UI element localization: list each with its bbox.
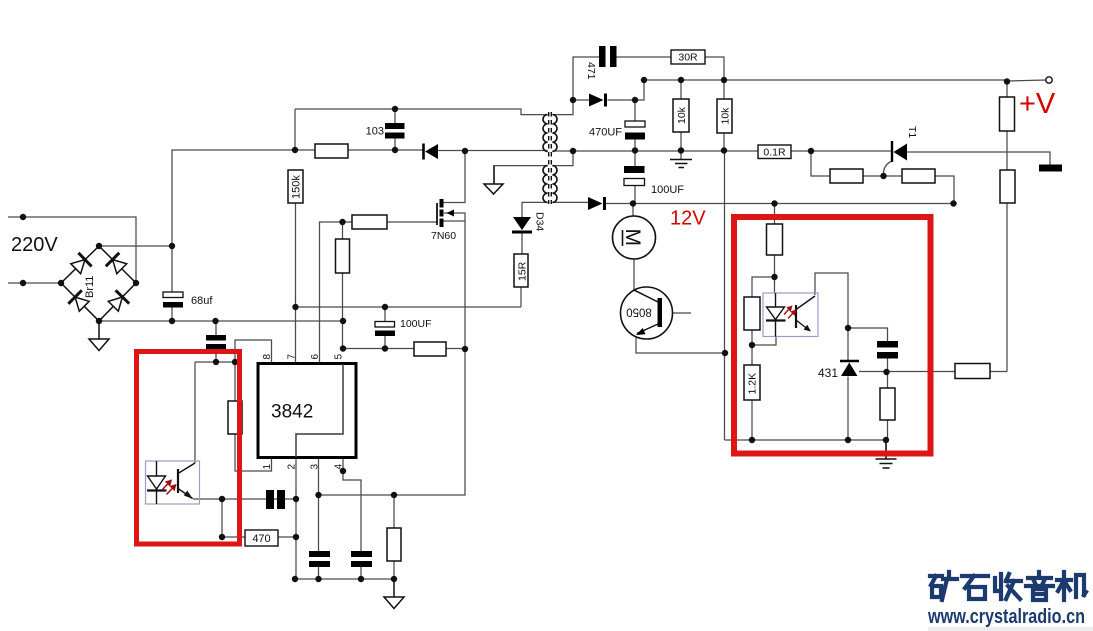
mosfet 7N60 xyxy=(437,199,454,227)
wire top out rail y80 xyxy=(644,79,1007,81)
svg-text:6: 6 xyxy=(310,354,321,360)
wire 431 node branch to cap xyxy=(848,328,888,341)
wire secondary2 winding top to rail xyxy=(552,151,573,166)
resistor bottom vertical xyxy=(387,528,401,561)
wire T1 base curve xyxy=(883,161,892,175)
ground below bridge xyxy=(89,321,109,351)
wire opto1 emitter row to pin2 xyxy=(193,498,296,500)
wire aux winding bottom to rail xyxy=(552,150,573,152)
wire T1 base network xyxy=(811,151,954,203)
resistor snubber top xyxy=(315,144,348,158)
capacitor 103 xyxy=(385,123,405,139)
capacitor 100UF small xyxy=(375,322,395,337)
svg-text:15R: 15R xyxy=(517,261,529,281)
labels red xyxy=(670,88,1056,230)
labels black xyxy=(11,52,918,546)
shunt regulator 431 xyxy=(840,361,859,376)
red highlight box right xyxy=(734,217,931,454)
wire primary lower row y150 xyxy=(295,149,548,152)
diode snubber xyxy=(424,144,439,160)
wire 100UF big leads xyxy=(634,151,636,203)
svg-text:+V: +V xyxy=(1019,88,1056,120)
resistor 10k first xyxy=(673,99,689,132)
svg-text:0.1R: 0.1R xyxy=(763,147,786,159)
resistor 1.2K xyxy=(744,365,760,400)
svg-text:12V: 12V xyxy=(670,208,706,230)
transistor 8050 xyxy=(621,287,673,339)
wire vcc aux line y307 xyxy=(296,306,522,308)
capacitor comp xyxy=(266,490,285,509)
wire AC top terminal to bridge right corner xyxy=(8,217,136,283)
optocoupler left box xyxy=(146,461,200,504)
resistor gate pulldown xyxy=(336,239,350,273)
wire 10k first leads xyxy=(680,80,682,159)
svg-text:T1: T1 xyxy=(906,126,918,138)
resistor current sense row xyxy=(414,342,446,356)
char kuang xyxy=(930,572,957,600)
transformer T core xyxy=(549,112,552,204)
wire bottom ground rail xyxy=(295,578,394,580)
ground near transformer xyxy=(484,166,503,194)
resistor T1 base a xyxy=(830,169,863,183)
capacitor 471 xyxy=(599,46,617,67)
svg-text:7N60: 7N60 xyxy=(431,230,456,242)
wire pin2 down xyxy=(295,458,297,579)
capacitor right box xyxy=(877,341,898,359)
motor M xyxy=(613,216,656,259)
svg-text:3842: 3842 xyxy=(271,402,313,423)
wire opto1 collector riser xyxy=(194,362,196,463)
svg-text:5: 5 xyxy=(334,354,345,360)
svg-text:30R: 30R xyxy=(678,52,698,64)
char ji xyxy=(1057,572,1086,600)
wire 68uf leads xyxy=(171,246,173,321)
resistor parallel led xyxy=(744,297,760,330)
ground bar terminal top right xyxy=(1039,165,1062,172)
wire 470UF leads xyxy=(634,100,636,151)
capacitor 68uf xyxy=(163,292,183,308)
ground right box earth xyxy=(876,440,897,468)
ground below 10k xyxy=(670,160,692,168)
wire long vertical x724 xyxy=(724,150,726,440)
wire feedback row y372 xyxy=(859,371,1007,373)
capacitor 470UF xyxy=(625,121,645,140)
svg-text:1: 1 xyxy=(262,464,273,470)
wire 68uf node up and right to 150k node xyxy=(172,150,295,246)
wire 440 ground rail of right box xyxy=(725,439,887,441)
resistor below cap2 xyxy=(880,388,895,420)
svg-text:D34: D34 xyxy=(534,212,546,231)
svg-text:100UF: 100UF xyxy=(651,184,684,196)
wire motor leads xyxy=(633,204,634,291)
svg-text:471: 471 xyxy=(585,62,597,80)
optocoupler right box xyxy=(763,293,818,337)
wire pin3 down xyxy=(318,458,320,579)
svg-text:103: 103 xyxy=(366,126,384,138)
red highlight box left xyxy=(137,352,240,545)
svg-text:4: 4 xyxy=(334,464,345,470)
wire HV minus rail xyxy=(99,320,343,322)
svg-text:8050: 8050 xyxy=(626,306,652,318)
svg-text:10k: 10k xyxy=(720,107,732,125)
char shou xyxy=(995,574,1021,599)
svg-text:www.crystalradio.cn: www.crystalradio.cn xyxy=(927,606,1085,628)
capacitor 100UF big xyxy=(624,166,645,186)
svg-text:10k: 10k xyxy=(676,106,688,124)
watermark band xyxy=(928,627,1093,631)
svg-text:Br11: Br11 xyxy=(84,276,96,298)
IC internal route xyxy=(296,364,343,457)
wire gate divider resistor leads xyxy=(342,222,344,348)
transformer primary winding xyxy=(543,115,548,152)
wire comp node row xyxy=(195,361,235,363)
diode secondary1 xyxy=(589,94,606,107)
wire 431 to ground rail xyxy=(847,377,849,441)
wire bottom resistor leads xyxy=(393,495,395,579)
wire primary ground row y348 xyxy=(343,348,465,350)
wire cap 103 leads xyxy=(394,109,396,150)
wire hv cap to comp node xyxy=(215,321,217,362)
wire parallel resistor to cathode node xyxy=(752,330,776,365)
svg-text:7: 7 xyxy=(287,354,298,360)
wire pin4 down jog xyxy=(343,458,361,579)
resistor +V upper xyxy=(1000,97,1015,131)
resistor label box 470 xyxy=(245,530,278,546)
open terminal +V xyxy=(1046,77,1052,83)
resistor comp vertical xyxy=(228,401,242,434)
transistor T1 xyxy=(892,141,907,162)
resistor feedback row xyxy=(955,364,990,379)
wire +V divider vertical xyxy=(1006,82,1008,372)
capacitor pin4 bottom xyxy=(351,551,372,567)
capacitor vcc filter xyxy=(206,335,226,350)
svg-text:100UF: 100UF xyxy=(400,318,432,330)
transformer secondary2 winding xyxy=(552,166,557,203)
wire aux winding top to diode node xyxy=(552,100,573,115)
bridge rectifier Br11 xyxy=(61,246,136,321)
wire led node to parallel resistor xyxy=(752,277,775,297)
wire D34 to 15R to vcc row xyxy=(521,234,522,308)
wire 1.2K bottom lead xyxy=(751,400,753,440)
ground bottom center xyxy=(384,579,404,609)
svg-text:470UF: 470UF xyxy=(589,127,622,139)
wire 10k second leads xyxy=(723,80,725,150)
wire snubber top rail xyxy=(295,109,548,150)
wire cap2 bottom and resistor leads xyxy=(887,359,889,441)
svg-text:8: 8 xyxy=(262,354,273,360)
wire T1 emitter to ground bar xyxy=(907,152,1050,165)
svg-text:3: 3 xyxy=(310,464,321,470)
wire source sense down to bottom row xyxy=(319,349,466,495)
wire right box top resistor leads xyxy=(774,204,776,294)
diode D34 xyxy=(512,217,532,234)
wire diode1 row xyxy=(573,80,644,100)
wire 470 row xyxy=(222,499,296,537)
wire secondary2 bottom to diode2 xyxy=(552,201,588,203)
wire 8050 base stub xyxy=(662,312,691,314)
char shi xyxy=(962,576,988,599)
wire opto2 collector path xyxy=(815,273,848,361)
capacitor pin3 bottom xyxy=(309,551,330,567)
watermark xyxy=(927,572,1086,628)
wire aux winding to D34 xyxy=(522,202,548,217)
resistor T1 base b xyxy=(902,169,935,183)
svg-text:431: 431 xyxy=(818,366,838,380)
resistor 15R xyxy=(514,254,528,287)
transformer secondary1 winding xyxy=(552,115,557,152)
wire AC bottom terminal to bridge left corner xyxy=(8,282,61,284)
resistor gate series xyxy=(352,215,387,229)
IC 3842 box xyxy=(258,364,356,458)
svg-text:2: 2 xyxy=(287,464,298,470)
svg-text:M: M xyxy=(621,229,644,247)
wire mosfet source down xyxy=(443,221,465,349)
wire 100UF small leads xyxy=(384,307,386,348)
wire to +V terminal xyxy=(1007,80,1046,81)
wire secondary common rail y151 xyxy=(573,150,892,152)
wire pin6 up and gate row xyxy=(320,222,438,363)
wire 150k to pin7 xyxy=(295,203,297,363)
svg-text:1.2K: 1.2K xyxy=(747,373,759,395)
svg-text:68uf: 68uf xyxy=(191,295,213,307)
wire bridge plus to 68uf node xyxy=(99,245,172,247)
transformer aux winding left xyxy=(543,166,548,203)
wire 12V rail y203 xyxy=(606,203,954,205)
wire primary aux winding to ground xyxy=(494,166,548,184)
resistor label box 30R xyxy=(671,50,705,64)
wire pin1 to comp resistor and pin8 path xyxy=(235,340,272,471)
resistor label box 0.1R xyxy=(758,145,791,159)
svg-text:470: 470 xyxy=(252,533,270,545)
resistor right box top xyxy=(767,224,783,255)
resistor 10k second xyxy=(717,99,732,133)
svg-text:220V: 220V xyxy=(11,234,58,256)
wire 471 branch xyxy=(573,57,724,100)
resistor 150k xyxy=(288,170,303,203)
diode secondary2 xyxy=(588,197,605,210)
resistor +V lower xyxy=(1000,170,1015,203)
svg-text:150k: 150k xyxy=(291,175,303,199)
char yin xyxy=(1026,572,1053,600)
wire mosfet body tap xyxy=(444,213,465,221)
wire 8050 emitter run xyxy=(636,334,725,353)
wire mosfet drain to node xyxy=(443,151,465,203)
